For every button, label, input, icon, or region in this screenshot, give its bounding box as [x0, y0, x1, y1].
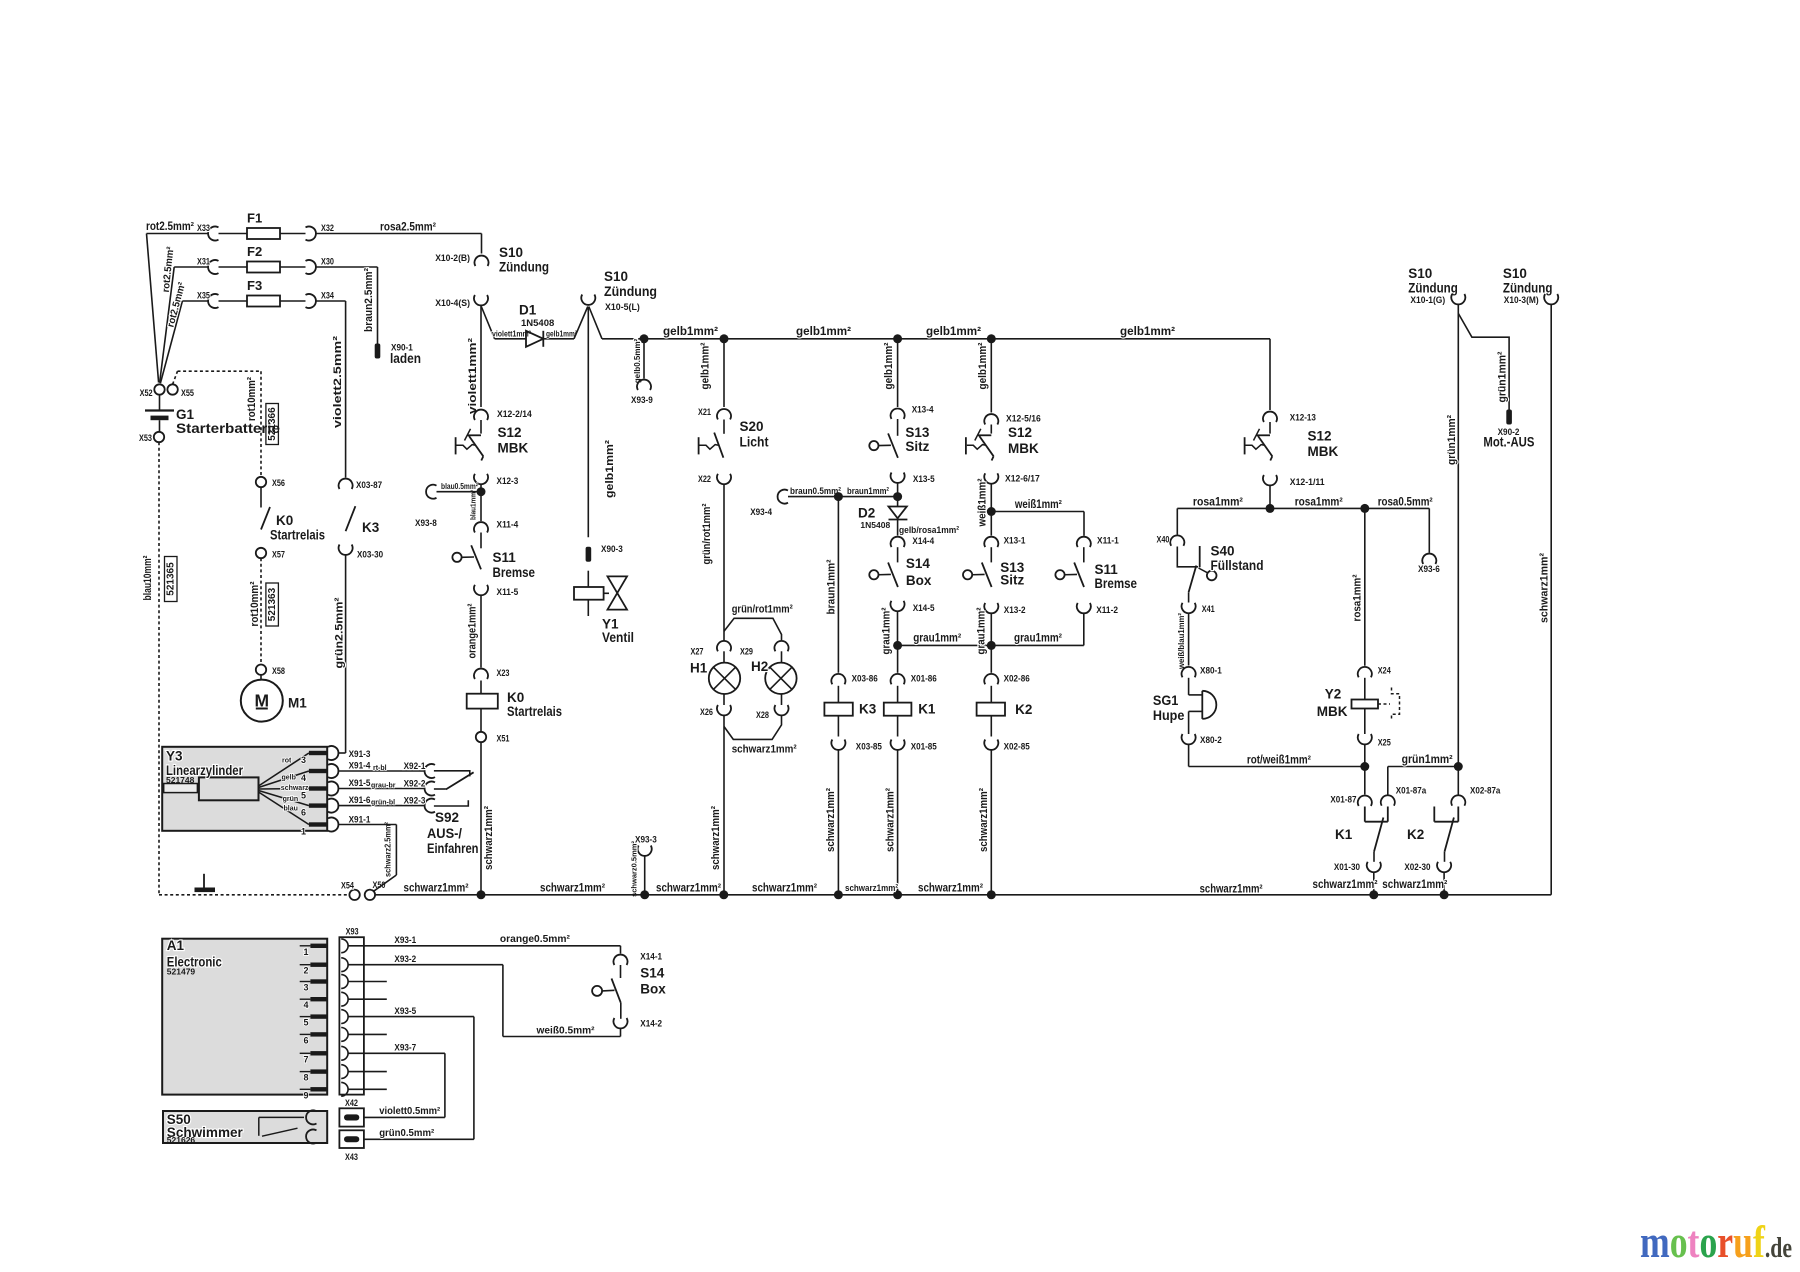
- pin 5 Y3: [309, 786, 327, 790]
- svg-text:schwarz1mm²: schwarz1mm²: [1313, 879, 1378, 891]
- svg-text:schwarz1mm²: schwarz1mm²: [978, 788, 990, 852]
- node braun junction K3: [834, 492, 843, 501]
- switch actuator link: [462, 556, 474, 558]
- svg-text:X14-5: X14-5: [913, 603, 935, 614]
- svg-text:M1: M1: [288, 696, 307, 711]
- connector X12-3: [474, 474, 488, 484]
- svg-text:S12: S12: [1008, 425, 1032, 440]
- wire gruen-bl: [339, 805, 425, 807]
- switch actuator link: [1246, 445, 1265, 450]
- svg-text:weiß0.5mm²: weiß0.5mm²: [536, 1025, 595, 1037]
- wire grau1mm2 to bus: [897, 611, 899, 645]
- svg-text:Bremse: Bremse: [493, 565, 536, 580]
- wire rt-bl: [339, 770, 425, 772]
- switch actuator link: [700, 445, 719, 450]
- svg-text:Zündung: Zündung: [604, 284, 657, 299]
- wire stub pin3: [348, 981, 387, 983]
- svg-text:X93-6: X93-6: [1418, 564, 1440, 575]
- svg-text:X51: X51: [497, 734, 511, 745]
- connector X25: [1358, 734, 1372, 744]
- socket X93 pin 3: [341, 975, 348, 989]
- wire K1 to bus: [1373, 872, 1375, 895]
- wire to X01-87a: [1387, 767, 1389, 795]
- switch blade: [888, 433, 898, 457]
- svg-text:521366: 521366: [267, 407, 278, 441]
- node gelb junction X93-9: [640, 334, 649, 343]
- svg-text:X27: X27: [691, 647, 704, 658]
- svg-text:3: 3: [303, 983, 308, 993]
- pin 3 A1: [300, 981, 311, 983]
- switch actuator circle: [963, 570, 972, 579]
- connector X28: [775, 705, 789, 715]
- switch tick: [1254, 429, 1260, 441]
- svg-text:X12-2/14: X12-2/14: [497, 409, 532, 420]
- wire gruen/rot1mm2: [723, 484, 725, 641]
- pin 9 A1: [300, 1088, 311, 1090]
- svg-text:X93-9: X93-9: [631, 395, 653, 406]
- svg-text:Füllstand: Füllstand: [1211, 558, 1264, 573]
- svg-text:X41: X41: [1202, 604, 1216, 615]
- switch actuator circle: [1055, 570, 1064, 579]
- svg-text:521626: 521626: [167, 1135, 196, 1145]
- svg-text:Hupe: Hupe: [1153, 708, 1185, 723]
- svg-text:S14: S14: [906, 556, 931, 571]
- svg-text:schwarz1mm²: schwarz1mm²: [752, 883, 817, 895]
- relay contact K0 Startrelais: [260, 487, 262, 507]
- wire fan gruen: [259, 791, 309, 806]
- wire rosa to X40: [1176, 508, 1178, 534]
- svg-text:grün1mm²: grün1mm²: [1496, 351, 1508, 402]
- socket X93 pin 5: [341, 1010, 348, 1024]
- svg-text:D2: D2: [858, 506, 875, 521]
- svg-text:Y3: Y3: [166, 749, 183, 764]
- svg-text:braun2.5mm²: braun2.5mm²: [363, 268, 375, 332]
- controller A1 Electronic: [162, 939, 327, 1095]
- svg-text:1: 1: [301, 827, 306, 837]
- wire schwarz1mm2 bus: [375, 894, 1551, 896]
- connector X14-2: [614, 1018, 628, 1028]
- connector X92-1: [425, 764, 435, 778]
- wire violett1mm2: [480, 306, 482, 408]
- svg-text:rot: rot: [282, 758, 292, 765]
- svg-text:X91-4: X91-4: [349, 761, 371, 772]
- connector X91-4: [328, 764, 338, 778]
- switch actuator bar: [455, 437, 457, 454]
- svg-text:X12-3: X12-3: [497, 476, 519, 487]
- wire weiss1mm2: [990, 484, 992, 536]
- connector X14-5: [891, 601, 905, 611]
- svg-text:grün: grün: [283, 796, 299, 803]
- connector X01-30: [1367, 862, 1381, 872]
- svg-text:rot10mm²: rot10mm²: [249, 581, 261, 626]
- pin 5 A1: [300, 1016, 311, 1018]
- svg-text:K2: K2: [1407, 827, 1424, 842]
- S50 contact: [259, 1116, 304, 1118]
- wire X91-1 schwarz2.5mm2: [339, 824, 397, 826]
- svg-text:X26: X26: [700, 707, 713, 718]
- connector X93-4: [778, 490, 788, 504]
- wire to S12: [990, 425, 992, 434]
- svg-text:rosa0.5mm²: rosa0.5mm²: [1378, 497, 1433, 509]
- wire rot2.5mm2 feed F3: [160, 301, 182, 383]
- svg-text:4: 4: [301, 773, 306, 783]
- wire grau bus: [898, 644, 1084, 646]
- svg-text:K0: K0: [507, 690, 524, 705]
- cylinder drawing: [164, 784, 198, 793]
- pin 8 A1: [300, 1071, 311, 1073]
- svg-text:1N5408: 1N5408: [521, 318, 554, 329]
- wire fan rot: [259, 753, 309, 786]
- node grau junction K1: [893, 641, 902, 650]
- svg-text:X92-3: X92-3: [404, 796, 426, 807]
- svg-text:gelb1mm²: gelb1mm²: [977, 342, 989, 389]
- svg-text:S20: S20: [740, 419, 764, 434]
- svg-text:schwarz1mm²: schwarz1mm²: [404, 883, 469, 895]
- node X54: [349, 890, 359, 900]
- connector X10-4(S): [474, 295, 488, 305]
- socket X93 pin 1: [341, 939, 348, 953]
- wire to rosa bus: [1269, 486, 1271, 509]
- svg-text:X03-87: X03-87: [356, 480, 382, 491]
- svg-text:K0: K0: [276, 513, 293, 528]
- wire violett1mm2 diagonal: [481, 307, 494, 339]
- svg-text:rosa2.5mm²: rosa2.5mm²: [380, 222, 436, 234]
- svg-text:X93-1: X93-1: [394, 935, 416, 946]
- switch actuator link: [972, 573, 984, 575]
- wire stub pin9: [348, 1088, 387, 1090]
- node X53: [154, 432, 164, 442]
- svg-text:grün1mm²: grün1mm²: [1402, 754, 1453, 766]
- svg-text:schwarz1mm²: schwarz1mm²: [825, 788, 837, 852]
- connector X33: [208, 227, 218, 241]
- svg-text:gelb1mm²: gelb1mm²: [663, 324, 718, 338]
- svg-text:Sitz: Sitz: [905, 439, 929, 454]
- wire fan gelb: [259, 771, 309, 788]
- svg-text:MBK: MBK: [1008, 441, 1039, 456]
- svg-text:rot10mm²: rot10mm²: [246, 377, 258, 421]
- svg-text:K2: K2: [1015, 702, 1032, 717]
- connector X24: [1358, 667, 1372, 677]
- wire to braun junction: [897, 483, 899, 507]
- switch actuator circle: [869, 570, 878, 579]
- wire gelb1mm2 right drop: [1269, 339, 1271, 410]
- svg-text:X54: X54: [341, 881, 355, 892]
- svg-text:MBK: MBK: [1308, 444, 1339, 459]
- relay coil K0 Startrelais: [480, 681, 482, 694]
- node rosa junction S12: [1266, 504, 1275, 513]
- node X50: [365, 890, 375, 900]
- svg-text:Zündung: Zündung: [1408, 281, 1458, 296]
- svg-text:X28: X28: [756, 710, 769, 721]
- node bus junction K3: [834, 890, 843, 899]
- svg-text:X02-87a: X02-87a: [1470, 786, 1501, 797]
- wire gelb1mm2 S12 drop: [990, 339, 992, 413]
- socket X93 pin 7: [341, 1046, 348, 1060]
- wire gruen1mm2 rail to K2: [1457, 767, 1459, 795]
- switch S40 Fuellstand: [1177, 547, 1198, 567]
- svg-text:521748: 521748: [166, 775, 195, 785]
- node bus junction K2 contact: [1440, 890, 1449, 899]
- svg-text:H2: H2: [751, 659, 768, 674]
- svg-text:grau1mm²: grau1mm²: [1014, 633, 1062, 645]
- connector X01-87a: [1381, 795, 1395, 805]
- svg-text:braun1mm²: braun1mm²: [825, 559, 837, 614]
- connector X34: [306, 294, 316, 308]
- svg-text:grün-bl: grün-bl: [371, 800, 395, 807]
- svg-text:X90-3: X90-3: [601, 544, 623, 555]
- valve Y1 Ventil: [587, 571, 589, 587]
- diode D2 1N5408: [889, 507, 907, 519]
- connector X12-2/14: [474, 410, 488, 420]
- svg-text:X14-2: X14-2: [640, 1019, 662, 1030]
- node bus junction K1 contact: [1369, 890, 1378, 899]
- wire blau10mm2 dashed ground run: [158, 442, 160, 895]
- wire stub pin8: [348, 1071, 387, 1073]
- svg-text:rosa1mm²: rosa1mm²: [1295, 497, 1343, 509]
- svg-text:521365: 521365: [165, 562, 176, 596]
- fuse F3: [219, 300, 248, 302]
- wire to S13-2: [990, 547, 992, 562]
- svg-text:S12: S12: [498, 425, 522, 440]
- svg-text:grün1mm²: grün1mm²: [1446, 415, 1458, 465]
- node bus junction K1: [893, 890, 902, 899]
- ground: [203, 874, 205, 888]
- svg-text:7: 7: [303, 1054, 308, 1064]
- float switch S50 Schwimmer: [163, 1111, 327, 1143]
- svg-text:X93: X93: [346, 927, 359, 938]
- node X58: [256, 665, 266, 675]
- svg-text:X01-85: X01-85: [911, 742, 938, 753]
- svg-text:X43: X43: [345, 1152, 358, 1163]
- svg-text:X52: X52: [140, 388, 153, 399]
- svg-text:G1: G1: [176, 407, 195, 422]
- svg-text:orange0.5mm²: orange0.5mm²: [500, 933, 570, 945]
- svg-text:X13-4: X13-4: [912, 405, 934, 416]
- svg-text:blau10mm²: blau10mm²: [142, 555, 154, 600]
- wire to S12-1: [480, 420, 482, 434]
- pin 1 Y3: [309, 822, 327, 826]
- wire K1 to X01-30: [1373, 852, 1375, 862]
- svg-text:X10-2(B): X10-2(B): [435, 253, 470, 264]
- svg-text:gelb1mm²: gelb1mm²: [546, 330, 577, 339]
- svg-text:X50: X50: [373, 880, 386, 891]
- diode D1 1N5408: [526, 331, 543, 347]
- wire rosa2.5mm2: [317, 233, 482, 235]
- svg-text:grau1mm²: grau1mm²: [880, 607, 892, 654]
- wire gruen0.5mm2: [364, 1138, 474, 1140]
- stub X93-3 schwarz0.5mm2: [644, 856, 646, 895]
- svg-text:weiß/blau1mm²: weiß/blau1mm²: [1177, 613, 1186, 670]
- svg-text:grün0.5mm²: grün0.5mm²: [379, 1127, 434, 1139]
- stub X93-8 blau0.5mm2: [437, 491, 482, 493]
- svg-text:X01-86: X01-86: [911, 674, 937, 685]
- node grau junction K2: [987, 641, 996, 650]
- svg-text:gelb1mm²: gelb1mm²: [1120, 324, 1175, 338]
- wire rot2.5mm2 F1 left: [147, 233, 209, 235]
- connector X13-5: [891, 473, 905, 483]
- socket X93 pin 4: [341, 992, 348, 1006]
- wire violett0.5mm2: [364, 1116, 445, 1118]
- switch contact bar: [1257, 434, 1271, 436]
- wire schwarz1mm2 K2 to bus: [990, 750, 992, 895]
- wire gruen1mm2 rail: [1457, 305, 1459, 767]
- switch S14 Box 2: [614, 955, 628, 965]
- switch contact bar: [468, 434, 482, 436]
- svg-text:S10: S10: [604, 269, 628, 284]
- svg-text:S10: S10: [1408, 266, 1432, 281]
- wire rot10mm2 dashed X55 to X56: [173, 371, 178, 384]
- svg-text:schwarz1mm²: schwarz1mm²: [540, 883, 605, 895]
- switch actuator circle: [869, 441, 878, 450]
- svg-text:6: 6: [303, 1035, 308, 1045]
- svg-text:521479: 521479: [167, 967, 196, 977]
- svg-text:rt-bl: rt-bl: [373, 765, 387, 772]
- svg-text:X13-2: X13-2: [1004, 605, 1026, 616]
- connector X01-86: [897, 645, 899, 672]
- switch actuator link: [1065, 573, 1077, 575]
- svg-text:X11-2: X11-2: [1096, 605, 1118, 616]
- svg-text:K3: K3: [859, 702, 877, 717]
- relay coil K3: [837, 686, 839, 703]
- node gruen junction: [1454, 762, 1463, 771]
- svg-text:braun1mm²: braun1mm²: [847, 486, 889, 497]
- label 521366: [266, 404, 279, 445]
- svg-text:X31: X31: [197, 257, 211, 268]
- wire rot2.5mm2 feed F1: [147, 234, 159, 383]
- connector X12-1/11: [1263, 475, 1277, 485]
- wire X93-2 weiss0.5mm2: [348, 964, 503, 966]
- connector X10-5(L) S10 Zuendung: [581, 295, 595, 305]
- svg-text:F2: F2: [247, 244, 262, 259]
- svg-text:X11-4: X11-4: [497, 520, 519, 531]
- battery G1 Starterbatterie: [159, 395, 161, 410]
- svg-text:blau1mm²: blau1mm²: [468, 490, 477, 520]
- node rosa junction Y2: [1360, 504, 1369, 513]
- svg-text:grün2.5mm²: grün2.5mm²: [333, 597, 345, 668]
- connector X11-1: [1077, 537, 1091, 547]
- socket X93 pin 8: [341, 1065, 348, 1079]
- connector X02-30: [1437, 862, 1451, 872]
- svg-text:orange1mm²: orange1mm²: [466, 603, 478, 658]
- wire gelb1mm2 to Y1: [587, 307, 589, 538]
- connector X21: [717, 409, 731, 419]
- wire to X41: [1188, 592, 1190, 602]
- svg-text:X13-5: X13-5: [913, 474, 935, 485]
- connector X13-4: [891, 408, 905, 418]
- wire to S13: [897, 419, 899, 436]
- relay coil K2: [990, 686, 992, 703]
- wire gelb1mm2 S20 drop: [723, 339, 725, 407]
- switch actuator link: [879, 444, 891, 446]
- svg-text:X56: X56: [272, 478, 285, 489]
- connector X01-87: [1358, 795, 1372, 805]
- svg-text:gelb1mm²: gelb1mm²: [796, 324, 851, 338]
- wire X93-7 violett0.5mm2: [348, 1052, 445, 1054]
- svg-text:F3: F3: [247, 278, 262, 293]
- wire branch from X28: [724, 716, 782, 740]
- svg-text:S10: S10: [1503, 266, 1527, 281]
- switch blade: [888, 563, 898, 588]
- svg-text:Box: Box: [640, 982, 666, 997]
- svg-text:X93-7: X93-7: [394, 1043, 416, 1054]
- node bus junction X93-3: [640, 890, 649, 899]
- wire to S12-3: [1269, 422, 1271, 434]
- switch blade: [1258, 436, 1272, 456]
- svg-text:X02-30: X02-30: [1404, 862, 1430, 873]
- connector X92-2: [425, 782, 435, 796]
- svg-text:X91-3: X91-3: [349, 749, 371, 760]
- svg-text:X11-5: X11-5: [497, 587, 519, 598]
- connector X26: [717, 705, 731, 715]
- switch blade: [469, 436, 483, 456]
- connector X10-2(B) S10 Zuendung: [475, 256, 489, 266]
- wire gelb1mm2 from D1: [543, 338, 574, 340]
- svg-text:X03-30: X03-30: [357, 550, 383, 561]
- svg-text:X01-87a: X01-87a: [1396, 786, 1427, 797]
- svg-text:X10-4(S): X10-4(S): [435, 298, 470, 309]
- svg-text:rosa1mm²: rosa1mm²: [1352, 574, 1364, 621]
- svg-text:A1: A1: [167, 938, 185, 953]
- relay contact K1: [1364, 807, 1366, 822]
- connector X02-87a: [1451, 795, 1465, 805]
- svg-text:schwarz1mm²: schwarz1mm²: [656, 883, 721, 895]
- relay coil K1: [897, 686, 899, 703]
- svg-text:rosa1mm²: rosa1mm²: [1193, 497, 1243, 509]
- svg-text:X12-1/11: X12-1/11: [1290, 477, 1325, 488]
- wire branch to X29: [724, 618, 782, 640]
- svg-text:X13-1: X13-1: [1004, 536, 1026, 547]
- wire K2 to X02-30: [1444, 852, 1446, 862]
- node X51: [476, 732, 486, 742]
- svg-text:X92-1: X92-1: [404, 761, 426, 772]
- svg-text:X32: X32: [321, 223, 334, 234]
- switch actuator bar: [698, 437, 700, 454]
- switch tick: [465, 429, 471, 441]
- connector X91-3: [328, 746, 338, 760]
- wire blau1mm2: [480, 484, 482, 521]
- svg-text:MBK: MBK: [1317, 704, 1348, 719]
- switch tick: [975, 429, 981, 441]
- switch blade: [979, 436, 993, 456]
- wire schwarz1mm2 H column to bus: [723, 716, 725, 895]
- connector X32: [306, 227, 316, 241]
- wire schwarz2.5mm2 from X50: [374, 875, 397, 891]
- node X57: [256, 548, 266, 558]
- connector X01-85: [891, 740, 905, 750]
- wire schwarz1mm2 right rail: [1550, 305, 1552, 895]
- svg-text:X01-30: X01-30: [1334, 862, 1360, 873]
- pin 4 Y3: [309, 769, 327, 773]
- svg-text:8: 8: [303, 1073, 308, 1083]
- svg-text:X40: X40: [1157, 535, 1170, 546]
- node bus junction K2: [987, 890, 996, 899]
- connector X03-87: [339, 479, 353, 489]
- pin 6 A1: [300, 1033, 311, 1035]
- node braun junction S13: [893, 492, 902, 501]
- svg-text:X93-2: X93-2: [394, 954, 416, 965]
- connector X12-6/17: [984, 473, 998, 483]
- svg-text:S11: S11: [1095, 562, 1119, 577]
- socket X93 pin 2: [341, 958, 348, 972]
- wire weiss bus: [991, 511, 1084, 513]
- svg-text:X29: X29: [740, 647, 753, 658]
- horn SG1 Hupe: [1188, 678, 1190, 695]
- svg-text:Mot.-AUS: Mot.-AUS: [1483, 435, 1534, 450]
- terminal X90-3: [586, 547, 592, 562]
- wire stub pin6: [348, 1033, 387, 1035]
- connector X11-4: [474, 522, 488, 532]
- wire grau corner to X11-2: [1083, 613, 1085, 645]
